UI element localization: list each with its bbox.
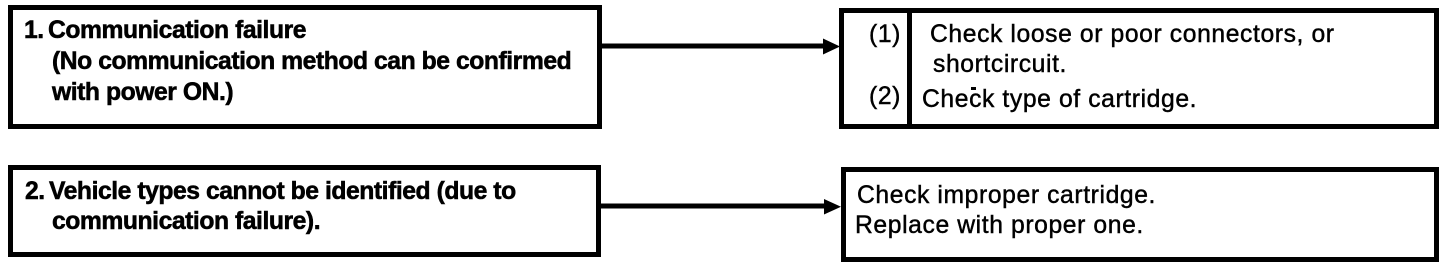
text: Check loose or poor connectors, or bbox=[930, 23, 1335, 48]
text: item number 1. bbox=[24, 19, 44, 44]
text: shortcircuit. bbox=[933, 53, 1067, 78]
text: (No communication method can be confirmed bbox=[52, 50, 571, 75]
arrow 1 shaft bbox=[600, 44, 826, 49]
text: Replace with proper one. bbox=[855, 214, 1144, 239]
divider: vertical rule inside box 3 bbox=[907, 8, 912, 129]
box 3: remedy list with (1)/(2) column bbox=[839, 8, 1439, 129]
text: Vehicle types cannot be identified (due to bbox=[49, 180, 516, 205]
text: item number 2. bbox=[25, 180, 45, 205]
text: (2) bbox=[869, 85, 901, 110]
box 2: problem "Vehicle types cannot be identified" bbox=[8, 165, 601, 257]
text: Check improper cartridge. bbox=[857, 184, 1156, 209]
arrow 2 shaft bbox=[599, 204, 827, 209]
text: Communication failure bbox=[48, 19, 306, 44]
arrow 1 head bbox=[823, 39, 840, 55]
box 1: problem "Communication failure" bbox=[8, 5, 602, 129]
text: (1) bbox=[869, 23, 901, 48]
text: Check type of cartridge. bbox=[922, 88, 1197, 113]
text: with power ON.) bbox=[52, 81, 233, 106]
speck: scan artifact above "Check" bbox=[971, 87, 976, 90]
arrow 2 head bbox=[824, 199, 841, 215]
box 4: remedy "Check improper cartridge" bbox=[841, 167, 1439, 262]
text: communication failure). bbox=[52, 210, 320, 235]
